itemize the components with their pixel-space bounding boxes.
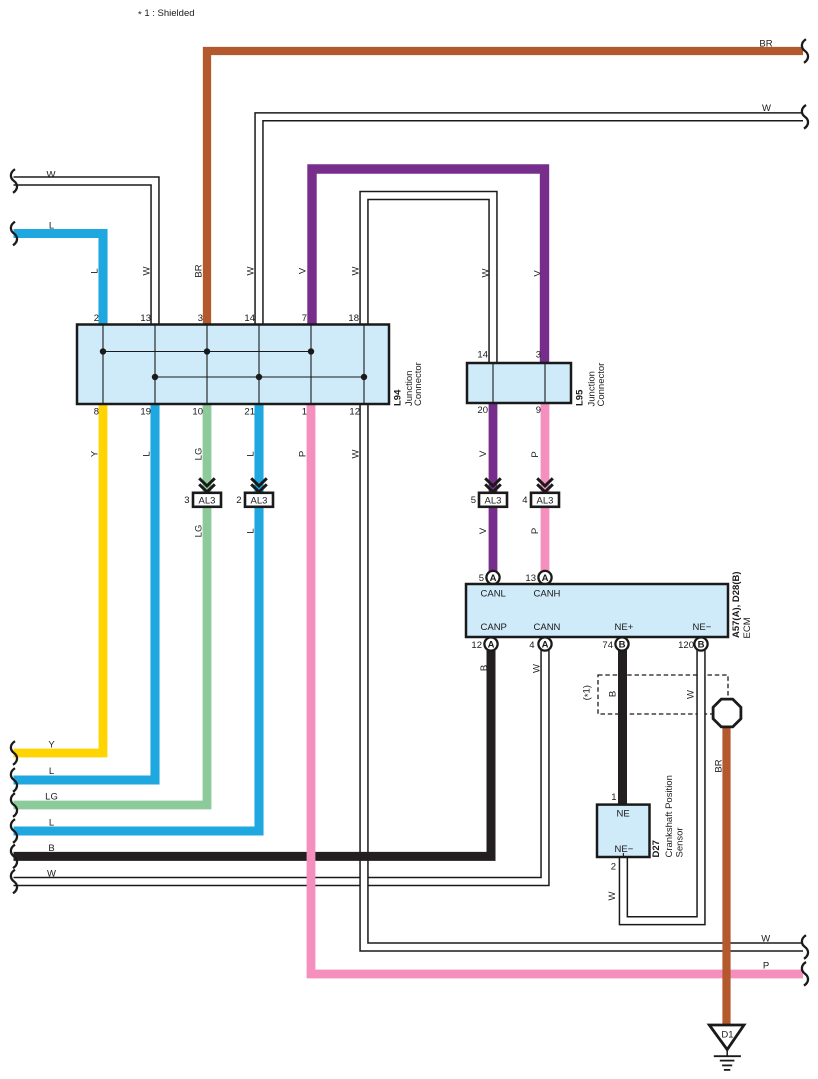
svg-text:W: W: [351, 449, 362, 458]
svg-text:20: 20: [477, 405, 488, 416]
svg-text:B: B: [619, 639, 626, 650]
svg-text:AL3: AL3: [485, 495, 502, 506]
svg-text:B: B: [48, 843, 54, 854]
connector AL3 no.4 on P wire: [522, 478, 559, 507]
wire colour labels below ECM: B W: [479, 664, 543, 673]
svg-text:(*1): (*1): [582, 685, 595, 700]
svg-text:W: W: [480, 268, 491, 277]
svg-text:W: W: [246, 266, 257, 275]
svg-text:74: 74: [602, 640, 613, 651]
wire W from left edge to L94 pin 13: [14, 170, 156, 327]
svg-text:8: 8: [94, 407, 99, 418]
shielded cable dashed box (*1): [582, 675, 729, 714]
svg-text:BR: BR: [714, 759, 725, 772]
svg-text:2: 2: [611, 862, 616, 873]
label D27 Crankshaft Position Sensor: [651, 775, 686, 857]
svg-text:L: L: [49, 221, 54, 232]
svg-text:LG: LG: [45, 792, 58, 803]
wire W from right edge to L94 pin 14: [259, 103, 803, 326]
svg-text:L: L: [49, 818, 54, 829]
L95 pin numbers 14 3 20 9: [477, 350, 541, 417]
label L94 Junction Connector: [393, 362, 425, 406]
svg-text:BR: BR: [194, 264, 205, 277]
svg-text:V: V: [478, 450, 489, 457]
svg-text:P: P: [298, 451, 309, 457]
wire V from L94 pin 7 to L95 pin 3: [312, 169, 545, 363]
ECM connector pin 120 circle B: [678, 637, 707, 651]
svg-text:14: 14: [477, 350, 488, 361]
svg-text:CANL: CANL: [481, 589, 506, 600]
wire colour labels below AL3: LG L: [194, 525, 257, 538]
svg-text:P: P: [530, 528, 541, 534]
svg-text:13: 13: [140, 313, 151, 324]
wire W from L94 pin 12 to right edge: [364, 402, 803, 947]
svg-text:BR: BR: [759, 39, 772, 50]
svg-text:D27: D27: [651, 840, 662, 857]
svg-text:CANN: CANN: [534, 622, 561, 633]
wire colour labels V P above and below AL3: [478, 450, 541, 534]
svg-text:2: 2: [94, 313, 99, 324]
svg-text:13: 13: [525, 573, 536, 584]
wire W from ECM pin 4 CANN to left edge: [14, 650, 546, 882]
svg-text:12: 12: [349, 407, 360, 418]
svg-text:AL3: AL3: [199, 495, 216, 506]
svg-text:5: 5: [479, 573, 484, 584]
wire L from L94 pin 19 to left edge: [14, 402, 156, 780]
svg-text:B: B: [607, 691, 618, 697]
wire break symbols right edge: [802, 39, 808, 985]
svg-text:LG: LG: [194, 448, 205, 461]
wire P from L95 pin 9 through AL3 to ECM pin 13 CANH: [541, 402, 550, 571]
svg-text:W: W: [47, 869, 56, 880]
svg-text:W: W: [142, 266, 153, 275]
svg-text:B: B: [479, 665, 490, 671]
svg-text:1: 1: [611, 792, 616, 803]
wire BR from shield octagon to ground D1: [714, 722, 727, 1027]
svg-text:NE: NE: [617, 809, 630, 820]
junction connector L94: [77, 325, 389, 405]
svg-text:D1: D1: [721, 1030, 733, 1041]
svg-text:120: 120: [678, 640, 694, 651]
svg-text:L: L: [49, 766, 54, 777]
svg-text:V: V: [478, 527, 489, 534]
wire W from ECM pin 120 NE- to D27 pin 2: [623, 650, 701, 921]
ECM connector pin 5 circle A: [479, 571, 500, 584]
svg-text:21: 21: [244, 407, 255, 418]
label L95 Junction Connector: [575, 363, 607, 407]
svg-text:2: 2: [236, 495, 241, 506]
svg-text:ECM: ECM: [742, 617, 753, 638]
svg-text:A57(A), D28(B): A57(A), D28(B): [731, 571, 742, 638]
svg-text:Y: Y: [90, 450, 101, 457]
svg-text:W: W: [532, 664, 543, 673]
svg-text:W: W: [607, 891, 618, 900]
ECM connector pin 12 circle A: [471, 637, 497, 651]
svg-text:V: V: [298, 267, 309, 274]
wire W from L94 pin 18 to L95 pin 14: [364, 196, 493, 366]
svg-text:V: V: [532, 270, 543, 277]
svg-text:W: W: [351, 266, 362, 275]
svg-text:19: 19: [140, 407, 151, 418]
L94 top pin numbers 2 13 3 14 7 18: [94, 313, 359, 324]
svg-text:L: L: [142, 451, 153, 456]
svg-text:3: 3: [198, 313, 203, 324]
svg-text:A: A: [542, 639, 549, 650]
ECM connector pin 74 circle B: [602, 637, 628, 651]
connector AL3 no.2 on L wire: [236, 478, 273, 507]
svg-text:A: A: [488, 639, 495, 650]
svg-text:AL3: AL3: [251, 495, 268, 506]
wire colour labels below L94: Y L LG L P W: [90, 448, 362, 461]
svg-text:W: W: [47, 170, 56, 181]
wire Y from L94 pin 8 to left edge: [14, 402, 104, 753]
svg-text:B: B: [698, 639, 705, 650]
svg-text:LG: LG: [194, 525, 205, 538]
svg-text:12: 12: [471, 640, 482, 651]
connector AL3 no.5 on V wire: [471, 478, 507, 507]
svg-text:10: 10: [192, 407, 203, 418]
wire L from left edge to L94 pin 2: [14, 221, 104, 327]
svg-text:NE−: NE−: [615, 844, 634, 855]
svg-text:4: 4: [529, 640, 534, 651]
svg-text:4: 4: [522, 495, 527, 506]
wire B from ECM pin 74 NE+ to D27 pin 1: [618, 650, 627, 805]
svg-text:P: P: [530, 451, 541, 457]
L94 bottom pin numbers 8 19 10 21 1 12: [94, 407, 360, 418]
svg-text:W: W: [762, 103, 771, 114]
wire LG from L94 pin 10 through AL3 to left edge: [14, 402, 208, 805]
svg-text:L95: L95: [575, 389, 586, 406]
svg-text:AL3: AL3: [537, 495, 554, 506]
svg-text:W: W: [761, 934, 770, 945]
svg-text:L94: L94: [393, 389, 404, 406]
wire colour labels above L94: L W BR W V W: [90, 264, 362, 277]
svg-text:CANH: CANH: [534, 589, 561, 600]
connector AL3 no.3 on LG wire: [184, 478, 221, 507]
svg-text:18: 18: [348, 313, 359, 324]
svg-text:L: L: [90, 268, 101, 273]
svg-text:1: 1: [302, 407, 307, 418]
svg-text:P: P: [763, 961, 769, 972]
svg-text:14: 14: [244, 313, 255, 324]
shield octagon: [713, 699, 741, 727]
svg-text:3: 3: [536, 350, 541, 361]
svg-text:L: L: [246, 451, 257, 456]
junction connector L95: [467, 363, 571, 403]
svg-text:A: A: [490, 573, 497, 584]
svg-text:NE−: NE−: [693, 622, 712, 633]
svg-text:7: 7: [302, 313, 307, 324]
wire BR from right edge to L94 pin 3: [207, 39, 803, 327]
svg-text:A: A: [542, 573, 549, 584]
svg-text:CANP: CANP: [481, 622, 507, 633]
ECM box A57(A) D28(B): [466, 584, 728, 637]
ECM connector pin 13 circle A: [525, 571, 551, 584]
svg-text:NE+: NE+: [615, 622, 634, 633]
wire B from left edge to ECM pin 12 CANP: [14, 650, 492, 856]
svg-text:5: 5: [471, 495, 476, 506]
svg-text:L: L: [246, 528, 257, 533]
svg-text:3: 3: [184, 495, 189, 506]
svg-text:* 1 : Shielded: * 1 : Shielded: [138, 8, 195, 21]
svg-text:W: W: [686, 690, 697, 699]
svg-text:Y: Y: [48, 740, 55, 751]
wire L from L94 pin 21 through AL3 to left edge: [14, 402, 260, 831]
ground D1: [709, 1025, 744, 1070]
sensor D27 crankshaft position: [597, 792, 650, 873]
ECM connector pin 4 circle A: [529, 637, 551, 651]
label A57(A), D28(B) ECM: [731, 571, 753, 638]
wire P from L94 pin 1 to right edge: [311, 402, 803, 974]
wire break symbols left edge: [11, 169, 17, 893]
svg-text:9: 9: [536, 405, 541, 416]
wire V from L95 pin 20 through AL3 to ECM pin 5 CANL: [489, 402, 498, 571]
